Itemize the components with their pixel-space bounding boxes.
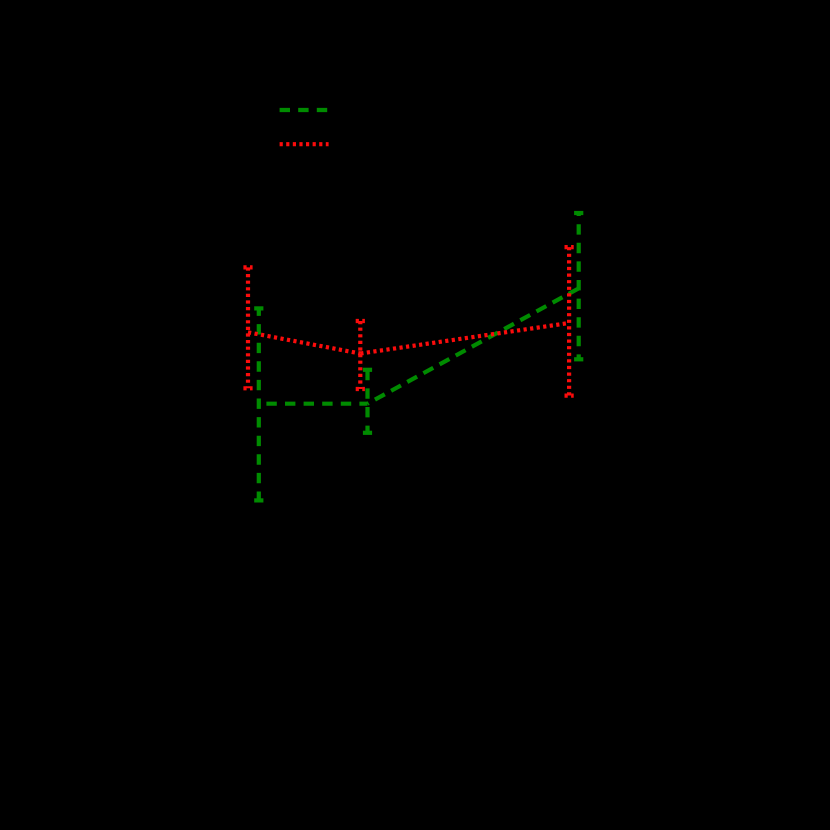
red error bar P2 bottom cap [356,387,365,391]
legend series 1 sample line (green dashed) [280,108,328,112]
green error bar P2 bottom cap [363,431,372,435]
green series data line segment P2-P3 [368,288,579,403]
green error bar P1 top cap [254,306,263,310]
green error bar P3 vertical [577,213,581,359]
green error bar P2 top cap [363,368,372,372]
red error bar P1 top cap [243,265,252,269]
red error bar P2 top cap [356,319,365,323]
red error bar P3 vertical [567,247,571,396]
red series data line segment P2-P3 [360,323,569,354]
red error bar P3 bottom cap [565,394,574,398]
green error bar P3 top cap [574,211,583,215]
green error bar P1 bottom cap [254,498,263,502]
green series data line segment P1-P2 [259,402,368,406]
green error bar P1 vertical [257,308,261,500]
green error bar P3 bottom cap [574,357,583,361]
red series data line segment P1-P2 [248,332,360,353]
red error bar P1 vertical [246,267,250,388]
red error bar P2 vertical [358,321,362,389]
legend series 2 sample line (red dotted) [280,142,329,146]
red error bar P3 top cap [565,245,574,249]
green error bar P2 vertical [365,370,369,433]
red error bar P1 bottom cap [243,386,252,390]
